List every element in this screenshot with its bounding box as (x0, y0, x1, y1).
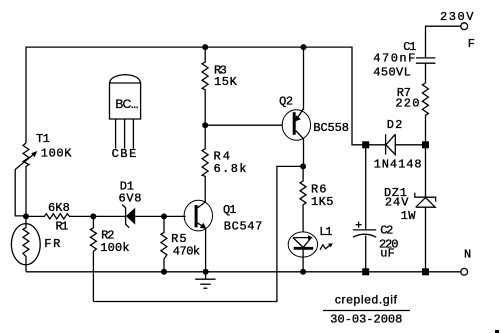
potentiometer T1 wiper arrow (15, 154, 34, 170)
svg-text:F: F (468, 37, 475, 51)
svg-text:L1: L1 (319, 225, 332, 239)
zener diode DZ1 (425, 148, 427, 197)
svg-text:R1: R1 (56, 220, 69, 234)
svg-text:BC547: BC547 (224, 220, 262, 234)
svg-text:24V: 24V (385, 196, 409, 210)
svg-text:Q2: Q2 (279, 95, 293, 109)
package pins (115, 119, 117, 149)
wire Q2 collector down (303, 138, 305, 166)
node dot R3 top (202, 44, 208, 50)
wire base Q2 (205, 124, 282, 126)
diode D2 (366, 144, 386, 146)
photoresistor FR (11, 224, 40, 265)
capacitor C2 (365, 148, 367, 230)
resistor R3 (202, 47, 208, 125)
wire top rail (26, 47, 363, 145)
wire Q2 collector to R2 bottom rail (93, 166, 303, 301)
svg-text:1W: 1W (401, 209, 417, 223)
node dot R1-D1-R2 (90, 213, 96, 219)
terminal F 230V (461, 23, 468, 30)
capacitor C1 (416, 57, 436, 59)
svg-text:BC...: BC... (115, 97, 138, 111)
svg-text:100k: 100k (100, 241, 129, 255)
resistor R1 (26, 214, 93, 219)
zener diode D1 (93, 215, 125, 217)
svg-text:FR: FR (44, 237, 60, 251)
wire main row left (node dot 26,216 to R1) (25, 166, 27, 216)
svg-text:N: N (464, 247, 471, 261)
resistor R7 (422, 83, 428, 145)
svg-text:E: E (129, 147, 136, 161)
node dot R3-R4 (202, 122, 208, 128)
node dot R5 ground (161, 269, 167, 275)
resistor R4 (202, 125, 208, 202)
title underline (323, 310, 410, 312)
plus sign C2 (356, 224, 362, 226)
node square D2-R7-DZ1 (422, 141, 429, 148)
node square C2 bottom (362, 268, 369, 275)
wire Q2 emitter to top rail (303, 47, 305, 110)
resistor R6 (300, 166, 306, 232)
svg-text:C: C (112, 147, 119, 161)
node dot L1 ground (300, 269, 306, 275)
LED L1 (288, 232, 317, 257)
node dot Q2 top (301, 44, 307, 50)
transistor Q2 (282, 110, 310, 141)
transistor Q1 (184, 200, 212, 231)
svg-text:230V: 230V (440, 10, 474, 24)
svg-text:30-03-2008: 30-03-2008 (330, 313, 402, 327)
svg-text:100K: 100K (41, 147, 73, 161)
svg-text:1N4148: 1N4148 (374, 158, 422, 172)
ground (205, 272, 207, 279)
node dot T1-R1 (23, 213, 29, 219)
LED light arrow (320, 244, 331, 249)
svg-text:470k: 470k (173, 245, 200, 259)
svg-text:6K8: 6K8 (48, 201, 70, 215)
corner mark (495, 330, 499, 333)
node square C2 top (362, 141, 369, 148)
svg-text:Q1: Q1 (223, 203, 237, 217)
wire T1 wiper down (15, 170, 26, 216)
node square DZ1 bottom (422, 268, 429, 275)
svg-text:C2: C2 (380, 223, 393, 237)
svg-text:6.8k: 6.8k (214, 162, 247, 176)
terminal N (461, 268, 468, 275)
svg-text:D2: D2 (387, 118, 403, 132)
node dot D1-R5 (161, 213, 167, 219)
wire base Q1 (164, 215, 186, 217)
node dot Q2 collector (300, 163, 306, 169)
transistor package BC outline (110, 83, 141, 119)
svg-text:450VL: 450VL (373, 66, 411, 80)
svg-text:6V8: 6V8 (119, 192, 142, 206)
svg-text:220: 220 (395, 97, 419, 111)
wire ground rail (26, 271, 461, 273)
svg-text:470nF: 470nF (373, 51, 415, 65)
resistor R2 (90, 216, 96, 301)
svg-text:uF: uF (380, 246, 395, 260)
svg-text:1K5: 1K5 (311, 195, 334, 209)
svg-text:crepled.gif: crepled.gif (335, 293, 398, 307)
svg-text:B: B (120, 147, 127, 161)
svg-text:T1: T1 (36, 132, 50, 146)
potentiometer T1 body (23, 143, 29, 167)
resistor R5 (161, 216, 167, 271)
node dot Q1 emitter ground (203, 269, 209, 275)
svg-text:BC558: BC558 (313, 121, 349, 135)
svg-text:15K: 15K (214, 75, 238, 89)
